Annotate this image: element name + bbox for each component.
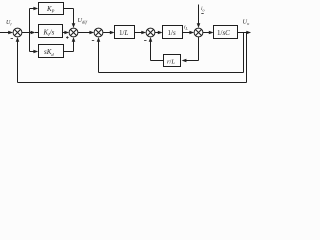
svg-text:1/s: 1/s [168,29,176,37]
wire feedback Uo to junction 3 (inner loop) [97,33,244,73]
summing junction 5 (iL - io) [194,28,203,37]
block KI/s [39,25,63,38]
wire output Uo [238,31,252,35]
block r/L [164,55,181,67]
block 1/sC [214,26,238,39]
block KP [39,3,64,15]
sign plus at junction 2 [66,36,69,39]
wire disturbance io down into junction 5 [197,5,201,28]
block sKd [39,45,64,58]
wire feedback Uo to junction 1 (outer loop) [16,33,247,83]
summing junction 3 (minus Uo feedback) [94,28,103,37]
summing junction 2 (PID sum) [69,28,78,37]
sign minus at junction 4 [144,40,146,42]
summing junction 4 (minus r/L feedback) [146,28,155,37]
wire KP output down into junction 2 [64,9,76,28]
wire branch vertical to KP and sKd [30,7,39,54]
wire junction 2 to junction 3 [78,31,94,35]
svg-text:1/L: 1/L [119,29,128,37]
wire sKd output up into junction 2 [64,37,76,51]
node label Ur [6,20,12,26]
wire junction 3 to block 1/L [103,31,115,35]
wire input Ur to summing junction 1 [0,31,13,35]
wire KI/s output into junction 2 [63,31,70,35]
block 1/L [115,26,135,39]
wire r/L output up into junction 4 [149,37,164,60]
node label Udif [78,17,88,24]
wire iL tap down to r/L input [182,37,199,62]
node label iL [184,25,189,31]
wire junction 4 to block 1/s [155,31,163,35]
svg-text:io: io [201,6,205,12]
svg-text:1/sC: 1/sC [217,29,230,37]
summing junction 1 (Ur - Uo) [13,28,22,37]
wire 1/s to junction 5 [183,31,195,35]
node label Uo [243,19,250,26]
wire junction 1 to branch node and KI/s input [22,31,39,35]
wire junction 5 to block 1/sC [203,31,214,35]
block 1/s [163,26,183,39]
svg-text:Ur: Ur [6,20,12,26]
node label io [201,6,205,12]
sign minus at junction 5 [201,13,203,15]
sign minus at junction 3 [92,40,94,42]
sign minus at junction 1 [11,38,13,40]
svg-text:r/L: r/L [167,58,175,65]
wire 1/L to junction 4 [135,31,147,35]
